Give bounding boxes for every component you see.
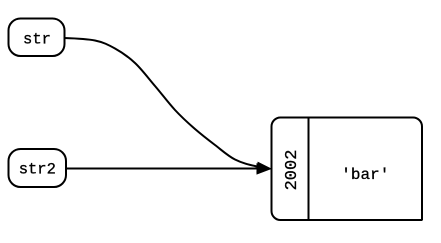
node str xyxy=(9,19,65,57)
box object 2002 xyxy=(272,118,423,221)
arrowhead of str edge xyxy=(257,162,272,172)
wire edge str to box xyxy=(65,38,258,167)
svg-text:str: str xyxy=(23,30,51,48)
svg-text:'bar': 'bar' xyxy=(341,166,389,184)
node str2 xyxy=(9,149,67,187)
divider xyxy=(308,118,310,221)
svg-text:2002: 2002 xyxy=(283,150,302,191)
arrowhead of str2 edge xyxy=(257,164,271,175)
svg-text:str2: str2 xyxy=(19,160,56,178)
wire edge str2 to box xyxy=(66,168,259,170)
